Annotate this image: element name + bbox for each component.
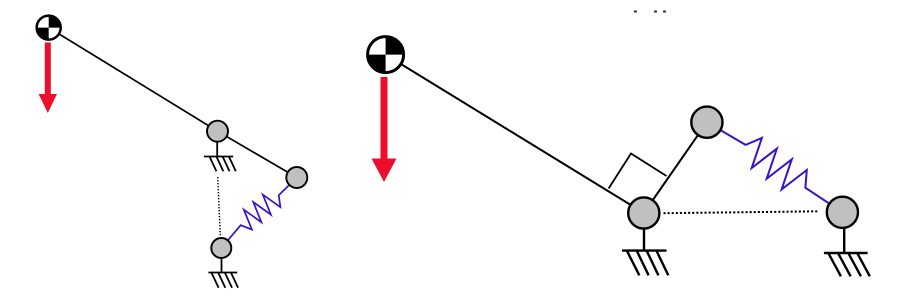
stray text dot 1 bbox=[634, 10, 637, 12]
joint D pivot circle bbox=[628, 197, 659, 228]
force arrow F1 (gravity) bbox=[39, 43, 57, 114]
wire link COM2 to joint D bbox=[386, 55, 644, 213]
wire link COM1 to joint A bbox=[49, 28, 218, 132]
joint B pivot circle bbox=[286, 167, 307, 188]
center of mass symbol COM1 bbox=[37, 16, 61, 40]
ground at joint A bbox=[204, 141, 236, 172]
spring K2 between joint E and joint F bbox=[707, 122, 843, 212]
joint F pivot circle bbox=[827, 197, 858, 228]
stray text dot 3 bbox=[663, 10, 666, 12]
wire link joint A to joint B bbox=[218, 131, 297, 177]
spring K1 between joint B and joint C bbox=[221, 178, 296, 249]
dotted construction line D-F bbox=[664, 211, 819, 213]
joint C pivot circle bbox=[211, 238, 231, 258]
ground at joint D bbox=[622, 226, 668, 275]
ground at joint F bbox=[824, 226, 870, 276]
right angle marker at joint D bbox=[609, 154, 667, 189]
center of mass symbol COM2 bbox=[368, 37, 404, 73]
dotted construction line A-C bbox=[218, 177, 221, 236]
ground at joint C bbox=[208, 257, 238, 288]
wire link joint D to joint E (rocker) bbox=[644, 122, 707, 213]
joint A pivot circle bbox=[207, 121, 228, 142]
stray text dot 2 bbox=[654, 10, 657, 12]
force arrow F2 (gravity) bbox=[372, 77, 397, 182]
joint E pivot circle bbox=[691, 107, 722, 138]
